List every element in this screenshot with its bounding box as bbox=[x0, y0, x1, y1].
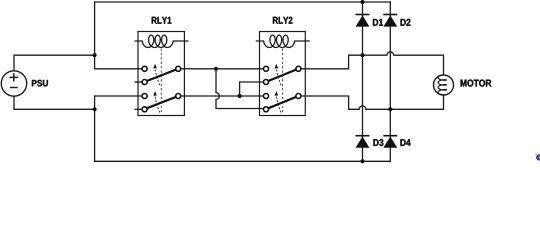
wire RLY2 S2 output down to motor bottom wire (hop over left diode column) bbox=[301, 95, 444, 109]
node crossover top tee bbox=[214, 67, 218, 71]
relay RLY1 S2 actuation arrow bbox=[155, 95, 160, 113]
relay RLY2 coil bbox=[256, 35, 310, 47]
wire RLY1 S1 output to RLY2 row1 bbox=[181, 68, 264, 70]
motor circle M1 bbox=[434, 75, 454, 95]
relay RLY1 S2 NC stub bbox=[134, 108, 142, 110]
node crossover bottom tee bbox=[238, 94, 242, 98]
RLY2 contact pin S1 throw B bbox=[264, 80, 269, 85]
wire top rail bbox=[95, 1, 391, 3]
label MOTOR bbox=[461, 80, 492, 87]
wire RLY2 S1 output up to motor top wire (hop over right diode column) bbox=[301, 52, 444, 75]
RLY1 contact pin S1 throw B bbox=[142, 80, 147, 85]
relay RLY1 S2 lever bbox=[147, 97, 176, 108]
label D4 bbox=[400, 139, 410, 146]
RLY1 contact pin S2 throw B bbox=[142, 107, 147, 112]
relay RLY2 S1 lever bbox=[269, 70, 297, 81]
relay RLY1 coil bbox=[135, 35, 189, 47]
label PSU bbox=[32, 80, 48, 87]
relay RLY2 linkage dashed line bbox=[282, 49, 284, 113]
node bottom rail / left column bbox=[360, 159, 364, 163]
RLY1 contact pin S1 throw A bbox=[142, 66, 147, 71]
wire left vertical bottom / feed to RLY1 row3 bbox=[95, 96, 143, 161]
RLY2 contact pin S1 common bbox=[296, 66, 301, 71]
diode D4 bbox=[383, 136, 397, 148]
relay RLY1 S1 NC stub bbox=[134, 81, 142, 83]
relay RLY1 S1 lever bbox=[147, 70, 176, 81]
PSU minus sign bbox=[10, 87, 18, 89]
label D2 bbox=[401, 19, 411, 26]
RLY2 contact pin S2 throw A bbox=[264, 94, 269, 99]
RLY1 contact pin S2 throw A bbox=[142, 94, 147, 99]
node PSU+ top tee bbox=[93, 53, 97, 57]
relay RLY2 box bbox=[260, 32, 306, 116]
PSU source circle bbox=[1, 71, 26, 96]
wire PSU top lead bbox=[14, 55, 95, 71]
label D3 bbox=[373, 139, 383, 146]
relay RLY1 linkage dashed line bbox=[160, 49, 162, 113]
wire left diode column D1/D3 bbox=[362, 2, 364, 161]
relay RLY1 S1 actuation arrow bbox=[155, 68, 160, 86]
node top rail / D1 column bbox=[360, 0, 364, 4]
wire RLY1 S2 output to RLY2 row3 bbox=[181, 95, 264, 97]
PSU plus sign bbox=[10, 73, 19, 81]
wire bottom rail bbox=[94, 160, 390, 162]
diode D1 bbox=[356, 15, 370, 27]
motor winding symbol bbox=[438, 75, 446, 95]
RLY2 contact pin S1 throw A bbox=[264, 66, 269, 71]
diode D2 bbox=[383, 15, 397, 27]
RLY1 contact pin S2 common bbox=[176, 94, 181, 99]
relay RLY1 box bbox=[138, 32, 184, 116]
relay RLY2 S2 actuation arrow bbox=[276, 95, 281, 113]
watermark fragment bottom-right bbox=[535, 153, 540, 160]
label D1 bbox=[373, 19, 383, 26]
label RLY1 bbox=[152, 17, 172, 24]
RLY2 contact pin S2 common bbox=[296, 94, 301, 99]
node motor bottom wire / right column bbox=[388, 107, 392, 111]
relay RLY2 S1 actuation arrow bbox=[276, 68, 281, 86]
node PSU- bottom tee bbox=[93, 107, 97, 111]
wire right diode column D2/D4 bbox=[389, 2, 391, 161]
wire crossover from node (239.6,96) up to RLY2 row2 bbox=[240, 82, 264, 96]
wire left vertical top / feed to RLY1 row1 bbox=[95, 2, 143, 69]
diode D3 bbox=[356, 136, 370, 148]
wire PSU bottom lead bbox=[14, 96, 95, 109]
relay RLY2 S2 lever bbox=[269, 97, 297, 108]
wire crossover from node (216,68.8) down to RLY2 row4 (hop over row3 wire) bbox=[216, 69, 264, 109]
label RLY2 bbox=[273, 17, 293, 24]
RLY1 contact pin S1 common bbox=[176, 66, 181, 71]
RLY2 contact pin S2 throw B bbox=[264, 107, 269, 112]
node motor top wire / left column bbox=[360, 53, 364, 57]
